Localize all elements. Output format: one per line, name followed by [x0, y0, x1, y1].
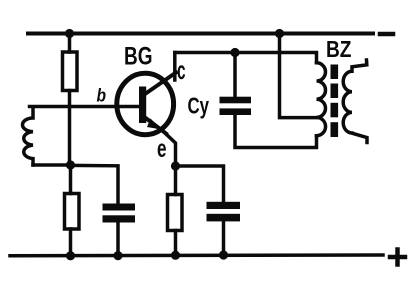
svg-text:BZ: BZ: [326, 36, 352, 62]
svg-text:e: e: [157, 135, 167, 163]
capacitor C1: [103, 204, 136, 223]
capacitor C2: [207, 202, 241, 222]
wire R3 to bottom rail: [174, 231, 178, 256]
wire L1 bottom to divider node: [33, 163, 71, 167]
wire top negative rail: [28, 32, 373, 36]
plus label: [390, 250, 405, 265]
wire top rail to transformer tap: [280, 35, 317, 118]
wire bottom positive rail: [10, 253, 383, 257]
node collector line / Cy junction: [230, 48, 239, 57]
wire divider node to C1: [71, 165, 119, 204]
wire emitter node to R3: [174, 166, 178, 195]
resistor R1: [63, 52, 78, 91]
transistor BG: [117, 73, 176, 135]
wire R1 bottom to base-divider node: [68, 91, 72, 166]
wire Cy branch down: [233, 53, 237, 98]
node top rail / transformer tap junction: [275, 29, 284, 38]
capacitor Cy: [220, 97, 252, 115]
wire C2 to bottom rail: [222, 221, 226, 254]
wire Cy bottom to coil bottom: [235, 115, 317, 148]
wire collector horizontal line: [175, 53, 317, 63]
svg-text:BG: BG: [124, 43, 153, 71]
wire emitter down: [166, 134, 176, 166]
transformer BZ secondary winding: [343, 60, 367, 143]
wire emitter node to C2: [176, 166, 224, 202]
node C1 / bottom rail: [113, 251, 122, 260]
wire R2 to bottom rail: [69, 229, 73, 256]
resistor R3: [168, 195, 183, 231]
wire collector up: [173, 53, 177, 81]
svg-text:b: b: [97, 86, 107, 106]
svg-text:Cy: Cy: [188, 93, 210, 119]
wire divider node to R2: [69, 165, 73, 194]
node R2 / bottom rail: [66, 251, 75, 260]
wire from top rail to R1: [68, 35, 72, 52]
resistor R2: [65, 194, 80, 230]
inductor L1: [22, 108, 33, 165]
minus label: [380, 32, 393, 37]
transformer BZ core: [331, 65, 339, 138]
wire base: [30, 105, 141, 109]
transformer BZ primary winding: [317, 63, 326, 136]
node emitter junction: [171, 161, 180, 170]
svg-text:c: c: [177, 55, 186, 85]
node divider junction: [66, 160, 75, 169]
node top rail / R1 junction: [65, 29, 74, 38]
node R3 / bottom rail: [171, 251, 180, 260]
node C2 / bottom rail: [219, 250, 228, 259]
wire C1 to bottom rail: [116, 223, 120, 256]
